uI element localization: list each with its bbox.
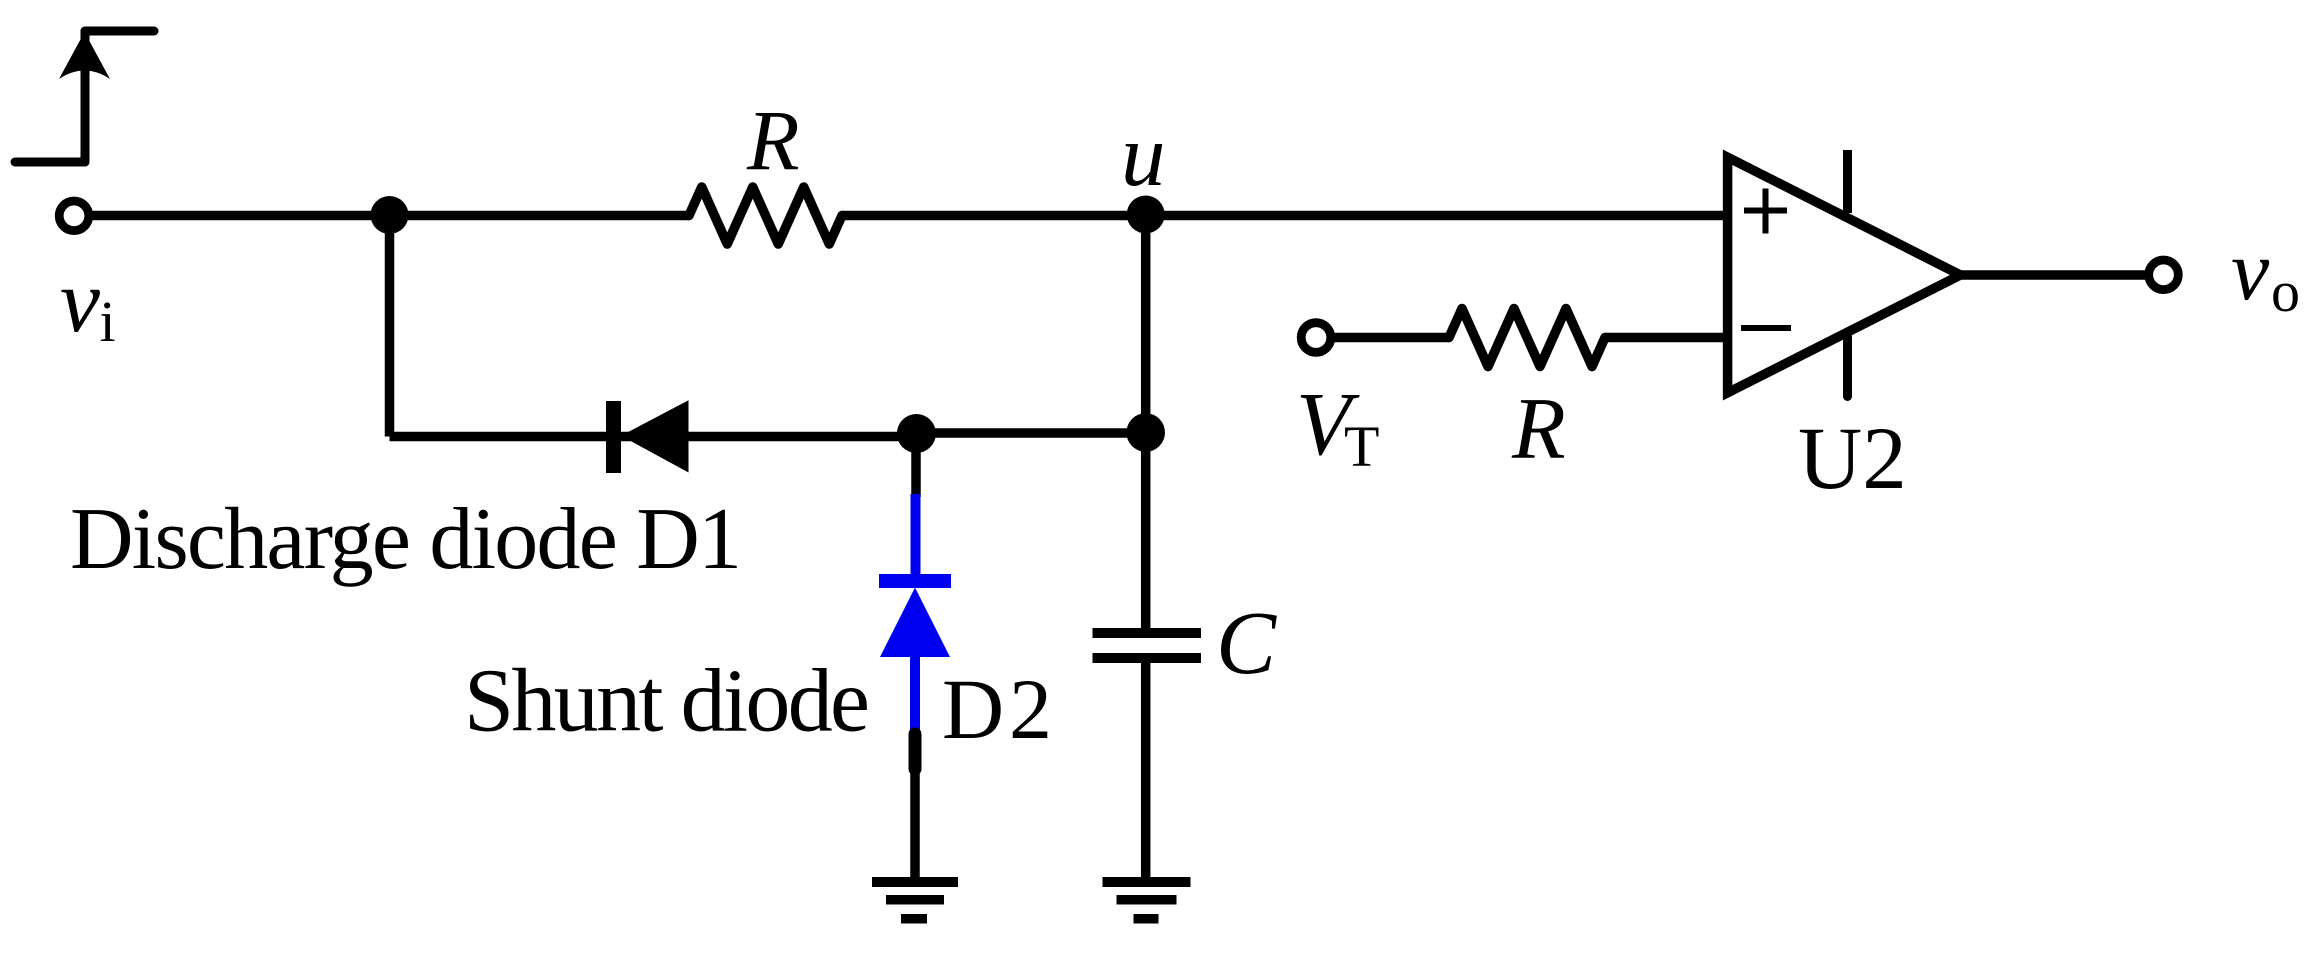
wire: v_i terminal to node A bbox=[92, 211, 390, 221]
op-amp plus sign bbox=[1744, 189, 1787, 234]
diode D2 anode lead joint (black) bbox=[909, 734, 922, 769]
svg-text:v: v bbox=[60, 252, 100, 351]
op-amp negative supply line bbox=[1843, 337, 1852, 397]
diode D2 top lead (black) bbox=[911, 450, 921, 497]
resistor R (inverting input) bbox=[1449, 309, 1605, 367]
diode D2 cathode bar (blue) bbox=[879, 574, 951, 588]
wire: resistor to op-amp inverting input bbox=[1605, 333, 1727, 343]
diode D2 cathode lead (blue) bbox=[911, 494, 921, 576]
svg-text:U2: U2 bbox=[1798, 410, 1907, 508]
step input waveform symbol bbox=[15, 31, 154, 162]
node B (junction dot at capacitor top) bbox=[1126, 413, 1165, 452]
resistor R (top) bbox=[689, 187, 842, 244]
label v_i bbox=[60, 252, 116, 354]
svg-text:v: v bbox=[2231, 222, 2270, 318]
svg-text:o: o bbox=[2271, 259, 2300, 324]
svg-text:T: T bbox=[1344, 414, 1379, 479]
ground under D2 bbox=[872, 877, 958, 924]
ground under C bbox=[1103, 877, 1191, 924]
capacitor C plates bbox=[1093, 628, 1202, 663]
label v_o bbox=[2231, 222, 2300, 324]
diode D2 anode lead (blue) bbox=[910, 655, 920, 732]
op-amp positive supply line bbox=[1843, 150, 1852, 213]
wire: node A to resistor R bbox=[390, 211, 689, 221]
svg-text:u: u bbox=[1121, 107, 1166, 205]
diode D2 triangle (blue) bbox=[880, 588, 950, 658]
op-amp minus sign bbox=[1741, 325, 1791, 331]
output terminal v_o bbox=[2149, 260, 2179, 290]
wire: node B to capacitor bbox=[1141, 433, 1151, 629]
svg-text:C: C bbox=[1216, 594, 1277, 693]
terminal V_T bbox=[1301, 323, 1331, 353]
wire: node A down to lower rail bbox=[385, 215, 395, 437]
op-amp U2 triangle bbox=[1728, 157, 1961, 393]
wire: D2 to ground bbox=[910, 766, 920, 881]
wire: D2 junction to node B bbox=[916, 428, 1146, 438]
diode D1 cathode bar bbox=[606, 401, 621, 473]
wire: V_T to resistor R (lower) bbox=[1333, 333, 1449, 343]
diode D1 triangle bbox=[621, 400, 689, 472]
node u (junction dot) bbox=[1127, 196, 1165, 234]
wire: resistor R to node u bbox=[842, 211, 1146, 221]
node A (input junction dot) bbox=[371, 196, 409, 234]
wire: node u to op-amp non-inverting input bbox=[1146, 211, 1727, 221]
svg-text:D2: D2 bbox=[942, 661, 1052, 757]
wire: capacitor to ground bbox=[1141, 663, 1151, 881]
svg-text:R: R bbox=[746, 92, 800, 188]
junction dot at top of D2 bbox=[897, 414, 936, 453]
wire: op-amp output to terminal bbox=[1958, 270, 2148, 280]
wire: lower rail from node A to D2 junction bbox=[390, 432, 917, 442]
svg-text:R: R bbox=[1511, 381, 1566, 478]
svg-text:Discharge diode D1: Discharge diode D1 bbox=[70, 491, 742, 588]
svg-text:i: i bbox=[100, 289, 116, 354]
svg-text:Shunt diode: Shunt diode bbox=[464, 652, 870, 751]
label V_T bbox=[1296, 375, 1379, 479]
wire: node u down to node B bbox=[1141, 215, 1151, 434]
input terminal v_i bbox=[59, 201, 89, 231]
